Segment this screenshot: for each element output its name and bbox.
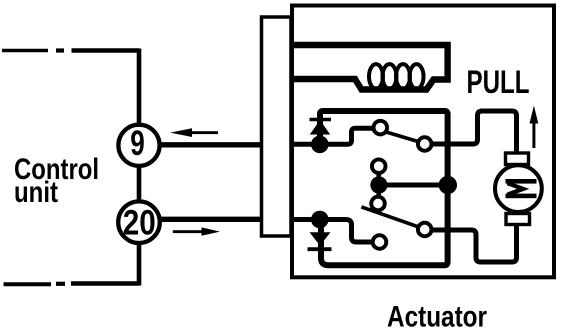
diode D2 cathode bar <box>308 247 332 251</box>
switch 2 pivot C2b <box>418 223 432 237</box>
terminal circle 20 <box>118 201 160 243</box>
relay frame: diode-1 column, top rail, right vertical, bottom wire, diode-2 column <box>320 111 448 265</box>
wire: junction D3 to junction D4 <box>379 183 448 188</box>
wire: switch 1 to motor top <box>430 111 517 153</box>
motor body <box>495 165 542 212</box>
diode D1 triangle <box>310 120 330 135</box>
actuator enclosure box <box>292 6 554 278</box>
connector strip (white body over wires) <box>262 17 292 236</box>
motor letter M (rotated sideways) <box>506 179 537 198</box>
motor top terminal <box>506 153 529 165</box>
switch 1 contact C1a <box>374 121 388 135</box>
contact C1c <box>372 159 386 173</box>
svg-text:20: 20 <box>123 203 156 243</box>
switch 2 contact C2a <box>371 197 385 211</box>
wire: terminal 20 down to bottom boundary <box>137 243 142 286</box>
wire: channel B from pin 20 into switch 2 <box>292 220 374 243</box>
pull solenoid loop: top rail and return <box>292 45 448 90</box>
junction dot D4 on right vertical <box>439 176 457 194</box>
motor bottom terminal <box>506 214 530 225</box>
svg-text:9: 9 <box>130 123 145 163</box>
wire: channel A from pin 9 into switch 1 <box>292 128 374 144</box>
wire: pin 9 to connector <box>160 142 265 147</box>
svg-text:PULL: PULL <box>467 64 530 100</box>
contact C2c <box>373 235 387 249</box>
switch 1 pivot C1b <box>418 137 432 151</box>
switch 1 blade <box>381 131 423 144</box>
control unit bottom dash-dot boundary <box>4 281 140 286</box>
diode D1 (points up) cathode bar <box>310 118 332 122</box>
wire: switch 2 to motor bottom <box>430 224 517 262</box>
wire: pin 20 to connector <box>160 217 265 222</box>
terminal circle 9 <box>118 125 159 166</box>
junction dot on channel A at diode D1 <box>311 136 329 154</box>
arrow (current direction, pointing right, below pin-20 wire) <box>173 227 220 235</box>
diode D2 (points down) triangle <box>310 232 331 245</box>
wire: terminal 9 to terminal 20 <box>137 166 142 202</box>
control unit top dash-dot boundary <box>2 49 139 53</box>
wire: corner vertical down to terminal 9 <box>137 49 142 125</box>
switch 2 blade <box>361 207 423 229</box>
vertical link C1c - D3 - C2a <box>376 170 381 200</box>
arrow (motor pull direction, pointing up) <box>530 106 539 149</box>
junction dot on channel B at diode D2 <box>311 211 329 229</box>
solenoid coil loops <box>369 64 424 89</box>
arrow (current direction, pointing left, above pin-9 wire) <box>170 128 218 137</box>
svg-text:unit: unit <box>14 176 58 209</box>
junction dot D3 <box>370 176 387 193</box>
svg-text:Actuator: Actuator <box>387 301 487 330</box>
